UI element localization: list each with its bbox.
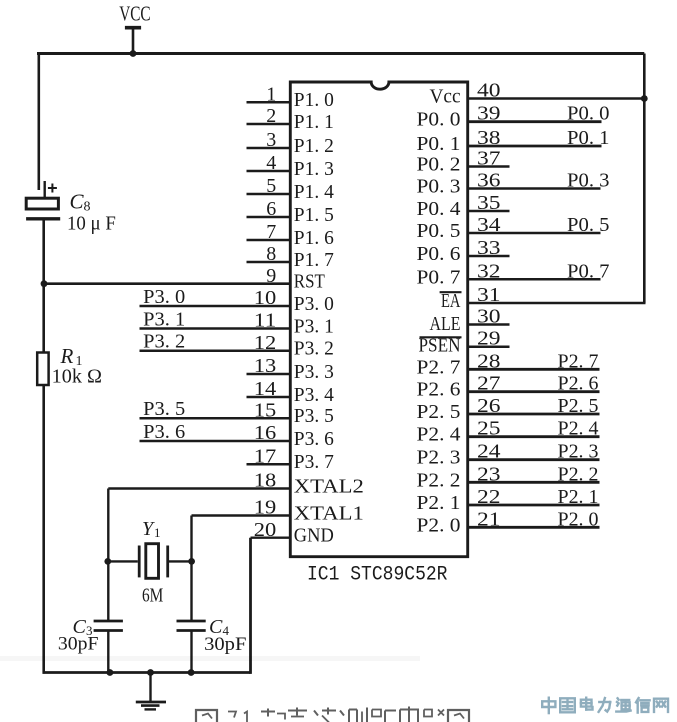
svg-text:P1. 2: P1. 2 bbox=[294, 135, 334, 157]
svg-text:P3. 2: P3. 2 bbox=[294, 338, 334, 360]
svg-text:P3. 4: P3. 4 bbox=[294, 384, 334, 406]
svg-text:31: 31 bbox=[477, 284, 501, 306]
svg-text:P3. 6: P3. 6 bbox=[143, 421, 185, 443]
svg-text:RST: RST bbox=[294, 271, 325, 293]
svg-text:3: 3 bbox=[266, 129, 276, 151]
svg-text:Vcc: Vcc bbox=[430, 86, 461, 108]
svg-text:P2. 6: P2. 6 bbox=[417, 379, 461, 401]
svg-text:17: 17 bbox=[254, 445, 277, 467]
svg-text:IC1 STC89C52R: IC1 STC89C52R bbox=[307, 564, 448, 587]
svg-text:11: 11 bbox=[254, 310, 277, 332]
svg-text:P0. 0: P0. 0 bbox=[567, 103, 610, 125]
svg-text:P0. 2: P0. 2 bbox=[417, 154, 461, 176]
svg-text:2: 2 bbox=[266, 105, 276, 127]
svg-text:P3. 5: P3. 5 bbox=[143, 398, 185, 420]
svg-text:39: 39 bbox=[477, 103, 501, 125]
svg-text:P2. 2: P2. 2 bbox=[558, 463, 599, 485]
svg-text:25: 25 bbox=[477, 418, 501, 440]
svg-text:18: 18 bbox=[254, 470, 277, 492]
svg-text:P3. 2: P3. 2 bbox=[143, 331, 185, 353]
svg-text:30pF: 30pF bbox=[58, 634, 99, 655]
svg-text:16: 16 bbox=[254, 422, 277, 444]
svg-text:P0. 1: P0. 1 bbox=[417, 133, 461, 155]
svg-text:XTAL1: XTAL1 bbox=[294, 503, 364, 525]
svg-text:40: 40 bbox=[477, 80, 501, 102]
svg-text:P3. 7: P3. 7 bbox=[294, 451, 334, 473]
svg-text:P1. 5: P1. 5 bbox=[294, 204, 334, 226]
svg-text:P0. 3: P0. 3 bbox=[567, 170, 610, 192]
svg-text:P2. 6: P2. 6 bbox=[558, 373, 599, 395]
svg-text:6: 6 bbox=[266, 198, 276, 220]
svg-text:P1. 0: P1. 0 bbox=[294, 89, 334, 111]
svg-text:P2. 0: P2. 0 bbox=[558, 508, 599, 530]
svg-text:24: 24 bbox=[477, 441, 501, 463]
svg-text:P2. 4: P2. 4 bbox=[558, 418, 599, 440]
svg-text:P2. 3: P2. 3 bbox=[417, 447, 461, 469]
svg-text:P3. 3: P3. 3 bbox=[294, 361, 334, 383]
svg-text:10k Ω: 10k Ω bbox=[52, 366, 102, 388]
svg-text:P1. 4: P1. 4 bbox=[294, 181, 334, 203]
svg-text:26: 26 bbox=[477, 395, 501, 417]
svg-text:4: 4 bbox=[266, 152, 276, 174]
svg-text:P3. 0: P3. 0 bbox=[143, 286, 185, 308]
svg-text:33: 33 bbox=[477, 237, 501, 259]
svg-text:P0. 5: P0. 5 bbox=[567, 214, 610, 236]
svg-text:23: 23 bbox=[477, 463, 501, 485]
svg-text:P2. 1: P2. 1 bbox=[417, 492, 461, 514]
svg-text:C: C bbox=[70, 190, 85, 214]
svg-text:P3. 0: P3. 0 bbox=[294, 293, 334, 315]
svg-text:P1. 7: P1. 7 bbox=[294, 249, 334, 271]
svg-text:P1. 3: P1. 3 bbox=[294, 158, 334, 180]
svg-text:38: 38 bbox=[477, 127, 501, 149]
svg-text:P3. 6: P3. 6 bbox=[294, 428, 334, 450]
svg-text:10: 10 bbox=[254, 287, 277, 309]
svg-text:P0. 3: P0. 3 bbox=[417, 176, 461, 198]
svg-text:10 μ F: 10 μ F bbox=[67, 213, 116, 235]
svg-text:P0. 4: P0. 4 bbox=[417, 198, 461, 220]
svg-text:P1. 1: P1. 1 bbox=[294, 111, 334, 133]
svg-text:P0. 5: P0. 5 bbox=[417, 220, 461, 242]
svg-text:15: 15 bbox=[254, 399, 277, 421]
svg-text:22: 22 bbox=[477, 486, 501, 508]
svg-text:P2. 2: P2. 2 bbox=[417, 469, 461, 491]
svg-text:1: 1 bbox=[266, 83, 276, 105]
svg-text:P2. 7: P2. 7 bbox=[558, 350, 599, 372]
svg-text:R: R bbox=[60, 344, 74, 368]
svg-text:9: 9 bbox=[266, 265, 276, 287]
svg-text:13: 13 bbox=[254, 355, 277, 377]
svg-text:27: 27 bbox=[477, 373, 501, 395]
svg-text:P1. 6: P1. 6 bbox=[294, 227, 334, 249]
svg-text:7: 7 bbox=[266, 221, 276, 243]
svg-text:6M: 6M bbox=[142, 585, 163, 607]
svg-text:30pF: 30pF bbox=[204, 634, 246, 655]
svg-text:37: 37 bbox=[477, 148, 501, 170]
svg-text:28: 28 bbox=[477, 350, 501, 372]
svg-text:P2. 4: P2. 4 bbox=[417, 424, 461, 446]
svg-text:8: 8 bbox=[266, 243, 276, 265]
svg-text:35: 35 bbox=[477, 192, 501, 214]
svg-text:ALE: ALE bbox=[430, 313, 461, 335]
svg-text:P2. 5: P2. 5 bbox=[558, 395, 599, 417]
svg-text:VCC: VCC bbox=[119, 2, 150, 26]
svg-text:P2. 0: P2. 0 bbox=[417, 514, 461, 536]
svg-text:19: 19 bbox=[254, 497, 277, 519]
svg-text:12: 12 bbox=[254, 332, 277, 354]
svg-text:GND: GND bbox=[294, 525, 334, 547]
svg-text:P0. 1: P0. 1 bbox=[567, 127, 610, 149]
svg-text:P3. 5: P3. 5 bbox=[294, 405, 334, 427]
svg-text:34: 34 bbox=[477, 214, 501, 236]
svg-text:21: 21 bbox=[477, 508, 501, 530]
svg-text:XTAL2: XTAL2 bbox=[294, 476, 364, 498]
svg-text:P0. 0: P0. 0 bbox=[417, 109, 461, 131]
svg-text:32: 32 bbox=[477, 260, 501, 282]
svg-text:P3. 1: P3. 1 bbox=[294, 316, 334, 338]
svg-text:1: 1 bbox=[154, 525, 161, 540]
svg-text:30: 30 bbox=[477, 306, 501, 328]
svg-text:P2. 3: P2. 3 bbox=[558, 441, 599, 463]
svg-text:14: 14 bbox=[254, 378, 277, 400]
svg-text:29: 29 bbox=[477, 328, 501, 350]
svg-text:P0. 6: P0. 6 bbox=[417, 243, 461, 265]
svg-text:P0. 7: P0. 7 bbox=[567, 260, 610, 282]
svg-text:P0. 7: P0. 7 bbox=[417, 266, 461, 288]
svg-text:20: 20 bbox=[254, 519, 277, 541]
svg-text:P2. 7: P2. 7 bbox=[417, 356, 461, 378]
svg-text:36: 36 bbox=[477, 170, 501, 192]
svg-text:5: 5 bbox=[266, 175, 276, 197]
svg-text:P2. 5: P2. 5 bbox=[417, 401, 461, 423]
svg-text:P3. 1: P3. 1 bbox=[143, 309, 185, 331]
svg-text:P2. 1: P2. 1 bbox=[558, 486, 599, 508]
